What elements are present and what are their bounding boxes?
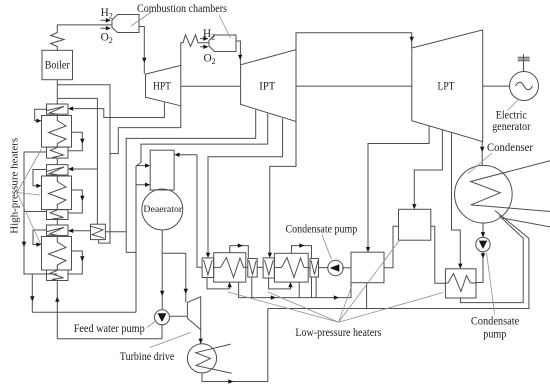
svg-text:generator: generator (492, 121, 531, 133)
svg-text:Condensate pump: Condensate pump (286, 223, 358, 235)
svg-text:HPT: HPT (153, 80, 171, 92)
svg-text:Combustion chambers: Combustion chambers (137, 3, 227, 15)
svg-text:Deaerator: Deaerator (143, 204, 183, 215)
svg-text:Turbine drive: Turbine drive (120, 351, 175, 363)
svg-text:IPT: IPT (259, 80, 275, 92)
svg-text:LPT: LPT (438, 80, 455, 92)
svg-text:Electric: Electric (496, 110, 527, 122)
svg-text:High-pressure heaters: High-pressure heaters (8, 138, 20, 234)
svg-text:Condenser: Condenser (487, 142, 533, 154)
svg-text:Feed water pump: Feed water pump (74, 323, 145, 335)
svg-text:Low-pressure heaters: Low-pressure heaters (295, 327, 381, 339)
svg-text:Condensate: Condensate (471, 315, 519, 327)
svg-text:pump: pump (483, 328, 506, 340)
svg-text:Boiler: Boiler (45, 60, 70, 72)
